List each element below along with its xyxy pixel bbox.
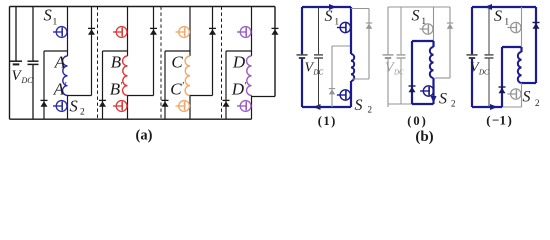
transistor S1 upper switch phase D [251, 7, 253, 57]
diode D1D lower freewheeling diode phase D [225, 51, 227, 119]
inductor winding A [63, 56, 68, 96]
diode D1C lower freewheeling diode phase C [164, 51, 166, 119]
svg-text:A: A [54, 53, 66, 72]
svg-text:(a): (a) [136, 127, 153, 143]
wire freewheel node top sub-circuit (0) active [412, 40, 434, 42]
wire current arrow right on bottom rail (-1) [490, 104, 498, 110]
svg-text:S: S [355, 97, 363, 114]
wire dashed phase separator after C [221, 7, 223, 120]
wire node top of winding A [44, 50, 68, 52]
wire bottom rail sub-circuit (-1) active [472, 106, 502, 108]
svg-text:S: S [439, 91, 447, 108]
diode D2A upper freewheeling diode phase A [91, 7, 93, 96]
svg-text:1: 1 [53, 18, 58, 28]
diode D1B lower freewheeling diode phase B [102, 51, 104, 119]
wire current arrow left on top rail (-1) [485, 4, 493, 10]
transistor S1 inactive sub-circuit (0) [433, 7, 435, 41]
wire node bottom of winding A [68, 95, 92, 97]
wire freewheel bottom segment sub-circuit (0) active [412, 103, 434, 105]
svg-text:DC: DC [478, 69, 489, 77]
transistor S2 active sub-circuit (0) [432, 78, 434, 104]
diode D1 inactive sub-circuit (1) [332, 45, 351, 47]
battery VDC [15, 7, 17, 61]
svg-text:(1): (1) [318, 114, 336, 128]
svg-text:DC: DC [21, 76, 34, 85]
wire left border bus (a) [9, 7, 11, 120]
inductor winding B [123, 56, 128, 96]
inductor phase winding active sub-circuit (1) [351, 54, 354, 81]
transistor S2 inactive sub-circuit (-1) [521, 83, 523, 107]
transistor S1 upper switch phase C [189, 7, 191, 57]
svg-text:S: S [44, 6, 52, 25]
wire bottom rail sub-circuit (1) active [302, 106, 351, 108]
diode D2 active on right border sub-circuit (-1) [535, 7, 537, 83]
wire top rail sub-circuit (0) inactive [388, 6, 450, 8]
wire bottom rail grey segment sub-circuit (0) [388, 103, 412, 105]
transistor S2 lower switch phase D [251, 96, 253, 120]
wire node bottom of winding C [190, 95, 213, 97]
battery VDC sub-circuit (1) with left border [301, 7, 303, 54]
wire current arrow left on bottom rail (1) [313, 104, 321, 110]
wire node top of winding D [226, 50, 252, 52]
diode D2 inactive sub-circuit (0) [449, 7, 451, 78]
inductor winding D [247, 56, 252, 96]
transistor S1 upper switch phase B [127, 7, 129, 57]
wire top rail sub-circuit (1) active [302, 6, 351, 8]
inductor winding C [185, 56, 190, 96]
transistor S2 lower switch phase A [67, 96, 69, 120]
svg-text:(−1): (−1) [486, 113, 512, 128]
svg-text:2: 2 [80, 108, 85, 118]
wire top rail sub-circuit (-1) active [472, 6, 536, 8]
diode D2C upper freewheeling diode phase C [212, 7, 214, 96]
wire bottom DC bus rail (a) [10, 118, 252, 120]
capacitor dc-link sub-circuit (-1) [488, 7, 490, 54]
svg-text:S: S [70, 97, 78, 116]
capacitor C dc-link [32, 7, 34, 61]
wire bottom rail grey segment sub-circuit (-1) [502, 106, 522, 108]
transistor S1 active sub-circuit (1) [350, 7, 352, 54]
inductor phase winding active sub-circuit (-1) [520, 47, 522, 52]
svg-text:B: B [111, 53, 122, 72]
wire dashed phase separator after B [160, 7, 162, 120]
wire current arrow down through S2 sub-circuit (0) [431, 96, 437, 103]
wire node top of winding C [165, 50, 190, 52]
svg-text:(b): (b) [415, 129, 433, 145]
wire winding bottom to right border sub-circuit (-1) active [522, 82, 537, 84]
diode D2D upper freewheeling diode phase D [274, 7, 276, 97]
wire node bottom of winding D [252, 96, 276, 98]
svg-text:DC: DC [393, 69, 404, 77]
transistor S1 inactive sub-circuit (-1) [521, 7, 523, 47]
svg-text:1: 1 [505, 17, 510, 27]
transistor S2 lower switch phase B [127, 96, 129, 120]
transistor S1 upper switch phase A [67, 7, 69, 57]
battery VDC sub-circuit (-1) with left border [471, 7, 473, 54]
wire node top of winding B [103, 50, 128, 52]
wire dashed phase separator after A [97, 7, 99, 120]
wire top DC bus rail (a) [10, 6, 276, 8]
diode D2B upper freewheeling diode phase B [153, 7, 155, 96]
svg-text:S: S [494, 8, 502, 25]
transistor S2 active sub-circuit (1) [350, 81, 352, 107]
svg-text:S: S [325, 8, 333, 25]
svg-text:D: D [232, 53, 246, 72]
wire node bottom of winding B [128, 95, 154, 97]
svg-text:1: 1 [335, 17, 340, 27]
transistor S2 lower switch phase C [189, 96, 191, 120]
diode D1A lower freewheeling diode phase A [43, 51, 45, 119]
wire current arrow right on top rail (1) [329, 4, 337, 10]
svg-text:2: 2 [535, 98, 540, 108]
svg-text:S: S [523, 89, 531, 106]
svg-text:(0): (0) [407, 114, 426, 128]
inductor phase winding active sub-circuit (0) [432, 41, 434, 47]
wire node top of winding sub-circuit (-1) active [502, 46, 522, 48]
capacitor dc-link sub-circuit (1) [318, 7, 320, 54]
svg-text:C: C [171, 53, 183, 72]
capacitor dc-link sub-circuit (0) [400, 7, 402, 54]
svg-text:1: 1 [422, 16, 427, 26]
svg-text:S: S [412, 8, 420, 25]
svg-text:2: 2 [368, 105, 373, 115]
diode D1 active sub-circuit (0) [411, 41, 413, 104]
battery VDC sub-circuit (0) inactive with left border [387, 7, 389, 54]
diode D2 inactive sub-circuit (1) [351, 8, 369, 10]
diode D1 active sub-circuit (-1) [501, 47, 503, 107]
svg-text:2: 2 [451, 99, 456, 109]
